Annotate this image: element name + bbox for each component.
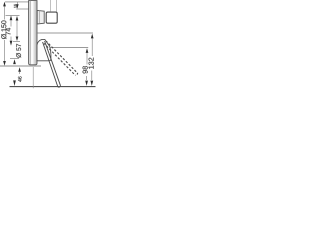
wire: ground line [10,86,96,88]
node: 54 text [18,76,22,81]
node: dim O150 lower stem [4,40,6,61]
node: 132 text [89,58,94,69]
wire: long line y66 [0,65,41,67]
node: cone handle hub lower [37,39,51,60]
node: solid lever left line [43,42,58,87]
node: dim 74 down arrow [10,41,13,46]
node: dim 74 lower stem [10,37,12,42]
node: solid lever right line [45,41,61,86]
wire: extension line x50.6 [50,0,52,12]
node: 74 text [6,28,11,35]
node: O150 down arrow [3,61,6,66]
node: dim 98 upper stem [86,53,88,65]
node: dim 74 upper stem [10,20,12,27]
node: mid dim x17 stem [16,20,18,37]
node: centerline below body [32,67,34,88]
node: bar inner line [29,1,31,65]
node: mid dim x17 up arrow [16,16,19,21]
wire: top extension line y2 [5,1,30,3]
node: dashed lever cap [75,73,77,75]
node: dim 74 up arrow [10,15,13,20]
wire: knee reference line y47.5 [50,47,88,49]
wire: tick y41.5 [13,41,20,43]
node: small top dim stem x17 [16,2,18,5]
node: lever grip rectangle [46,12,57,23]
wire: extension line y9 [16,8,29,10]
node: handle hub [37,10,44,24]
node: down arrow to ground left [13,80,16,86]
node: dashed lever line 1 [46,41,77,72]
node: O150 up arrow [3,2,6,7]
node: O150 text [1,21,6,40]
node: mid dim x17 down arrow [16,37,19,42]
node: dim 132 lower stem [91,71,93,81]
node: dim O150 upper stem [4,6,6,20]
node: dashed lever line 2 [44,43,75,74]
wire: tick y58.5 [10,58,19,60]
node: small top dim down arrow [16,4,19,8]
node: up arrow under y66 [18,67,21,71]
node: 57 text [16,44,21,58]
wire: extension line x56.7 [56,0,58,12]
node: escutcheon bar body [29,1,37,65]
node: 98 text [83,66,88,73]
node: dim 98 down arrow [85,81,88,86]
node: dim 132 upper stem [91,38,93,56]
node: hub inner line [38,11,40,24]
node: up arrow under tick [13,59,16,64]
node: dim 132 up arrow [91,34,94,39]
node: dim 132 down arrow [90,81,93,86]
node: lever end cap [58,86,61,87]
node: dim 98 up arrow [86,48,89,53]
wire: center axis line y33 [37,32,93,34]
node: dim 98 lower stem [86,76,88,80]
node: tiny 16 text [14,4,17,8]
wire: extension line y15.5 [6,15,20,17]
